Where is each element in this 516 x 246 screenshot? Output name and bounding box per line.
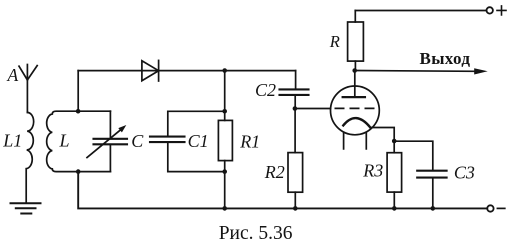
node: grid junction: [293, 106, 298, 111]
tube heater leads: [344, 132, 367, 149]
wire: plus supply rail: [355, 10, 486, 12]
node: R1/C1 top junction: [222, 109, 227, 114]
wire: variable capacitor branch top: [109, 111, 111, 138]
capacitor C3: [417, 171, 446, 178]
node: rail junction R1: [222, 206, 227, 211]
svg-text:R1: R1: [239, 132, 260, 152]
wire: C2 to grid node: [294, 96, 296, 109]
svg-text:A: A: [7, 65, 19, 85]
node: cathode junction: [392, 139, 397, 144]
variable-capacitor arrow: [87, 125, 126, 158]
resistor R3: [387, 141, 402, 208]
node: rail junction R2: [293, 206, 298, 211]
terminal +: [487, 6, 507, 15]
wire: C3 to ground rail: [432, 179, 434, 209]
wire: C1 loop bottom: [168, 143, 225, 172]
svg-text:C: C: [131, 131, 144, 151]
wire: detector junction to R1/C1: [224, 71, 226, 112]
ground: [11, 203, 41, 213]
node: detector output junction: [222, 68, 227, 73]
node: tank bottom junction: [76, 169, 81, 174]
svg-text:Выход: Выход: [420, 49, 471, 68]
diode VD: [142, 60, 159, 81]
svg-text:Рис. 5.36: Рис. 5.36: [219, 223, 293, 244]
tube cathode lead: [370, 128, 394, 141]
inductor L1: [26, 112, 33, 202]
svg-text:R2: R2: [264, 162, 285, 182]
capacitor C1: [150, 137, 185, 143]
node: rail junction R3: [392, 206, 397, 211]
wire: grid node to R2: [294, 109, 296, 153]
wire: C1 loop top: [168, 111, 225, 136]
wire: grid node to tube: [295, 108, 331, 110]
svg-text:C3: C3: [454, 163, 475, 183]
wire: tank to diode riser: [77, 71, 79, 112]
output arrowhead: [474, 68, 488, 74]
node: anode junction: [352, 68, 357, 73]
tube anode plate: [343, 96, 365, 98]
resistor R1: [218, 111, 232, 171]
node: rail junction C3: [431, 206, 436, 211]
svg-text:C2: C2: [255, 80, 276, 100]
node: tank top junction: [76, 109, 81, 114]
capacitor C2: [280, 89, 309, 95]
svg-text:L1: L1: [2, 131, 22, 151]
antenna A: [19, 65, 37, 113]
tube anode lead: [354, 71, 356, 98]
svg-text:C1: C1: [188, 131, 209, 151]
svg-text:L: L: [59, 131, 70, 151]
wire: R1 bottom to ground rail: [224, 172, 226, 209]
node: R1/C1 bottom junction: [222, 169, 227, 174]
resistor R2: [288, 153, 303, 209]
wire: bottom rail: [78, 172, 487, 209]
terminal -: [487, 205, 505, 211]
inductor L: [47, 111, 111, 171]
tube cathode: [343, 118, 370, 127]
wire: variable capacitor branch bottom: [109, 145, 111, 171]
wire: output: [355, 70, 475, 73]
vacuum tube V1: envelope: [331, 86, 380, 135]
svg-text:R: R: [329, 32, 340, 51]
wire: cathode node to C3: [394, 141, 433, 170]
resistor R: [348, 11, 364, 71]
wire: top rail: [78, 70, 295, 72]
tube grid (dashed): [335, 107, 375, 109]
capacitor C (variable): [94, 139, 128, 145]
svg-text:R3: R3: [362, 161, 383, 181]
wire: C2 riser: [295, 71, 297, 89]
